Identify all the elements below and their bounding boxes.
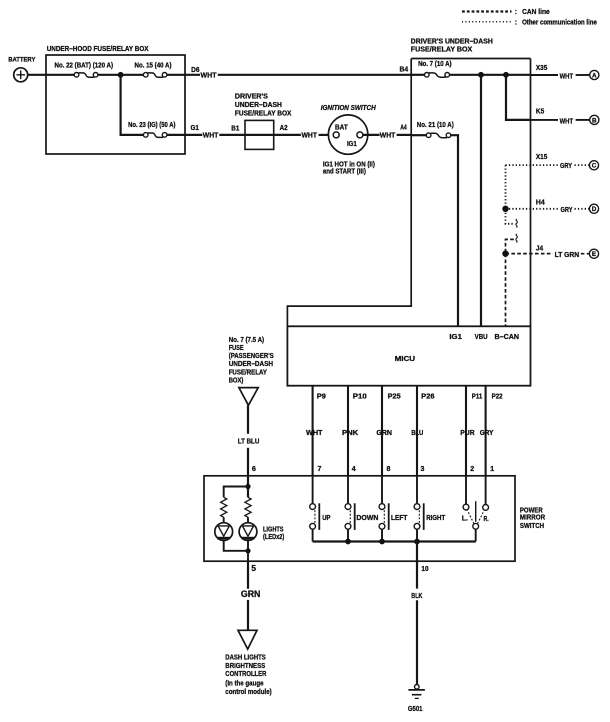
svg-text:PNK: PNK — [342, 430, 358, 437]
svg-text:GRY: GRY — [560, 163, 572, 170]
connector A — [590, 70, 599, 79]
switch L/R selector — [465, 476, 467, 505]
svg-text:BATTERY: BATTERY — [8, 56, 36, 63]
wire MICU pin P25 to switch pin 8 (GRN) — [381, 386, 383, 476]
svg-text:VBU: VBU — [475, 334, 488, 341]
svg-text:A4: A4 — [400, 125, 407, 132]
connector C — [589, 161, 598, 170]
legend: other communication line sample — [462, 21, 512, 23]
svg-text:WHT: WHT — [203, 133, 219, 140]
driver's under-dash fuse/relay box (B1/A2) — [245, 120, 274, 149]
wire UP to ground bus — [312, 529, 314, 541]
svg-text:R.: R. — [484, 516, 489, 523]
connector B — [590, 115, 599, 124]
fuse symbol (triangle) — [239, 388, 258, 406]
svg-text:A2: A2 — [280, 125, 288, 132]
svg-text::: : — [515, 19, 517, 26]
wire battery to under-hood box — [28, 74, 74, 76]
wire MICU pin P26 to switch pin 3 (BLU) — [416, 386, 418, 476]
svg-text:LEFT: LEFT — [391, 515, 408, 522]
driver's under-dash fuse/relay box outline — [287, 59, 530, 327]
svg-text:GRN: GRN — [241, 589, 261, 599]
wire to D6 exit — [167, 74, 200, 76]
svg-text:BRIGHTNESS: BRIGHTNESS — [225, 663, 265, 670]
squiggle continuation (dotted) — [516, 219, 518, 228]
wire IG1 to A4 — [363, 134, 380, 136]
wire K5 branch — [506, 75, 531, 120]
junction VBU branch — [478, 72, 484, 78]
svg-text:LT GRN: LT GRN — [555, 252, 580, 259]
svg-text:B1: B1 — [231, 125, 239, 132]
svg-text:3: 3 — [421, 466, 425, 473]
svg-text:LIGHTS: LIGHTS — [263, 526, 284, 533]
wire LEFT to ground bus — [381, 529, 383, 541]
junction main rail — [118, 72, 124, 78]
svg-text:K5: K5 — [536, 109, 544, 116]
terminal BAT — [333, 132, 339, 138]
svg-text:B–CAN: B–CAN — [495, 334, 520, 341]
svg-text:UNDER–DASH: UNDER–DASH — [229, 361, 273, 368]
squiggle continuation (CAN) — [516, 234, 518, 243]
svg-text:No. 21 (10 A): No. 21 (10 A) — [417, 122, 454, 129]
wire MICU pin P11 to switch pin 2 (PUR) — [465, 386, 467, 476]
wire X15 dotted — [506, 164, 559, 166]
wire A2 to ignition switch — [274, 134, 301, 136]
svg-text:DRIVER'S: DRIVER'S — [235, 94, 268, 101]
svg-text:D6: D6 — [191, 67, 199, 74]
connector D — [589, 204, 598, 213]
svg-text:IGNITION SWITCH: IGNITION SWITCH — [321, 105, 377, 112]
svg-text:P25: P25 — [388, 393, 401, 400]
switch DOWN — [347, 476, 349, 504]
wire CAN dashed stub — [506, 239, 514, 253]
junction K5 branch — [503, 72, 509, 78]
svg-text:B4: B4 — [400, 67, 409, 74]
svg-text:P10: P10 — [353, 393, 367, 400]
svg-text:CONTROLLER: CONTROLLER — [225, 671, 266, 678]
svg-text:No. 7 (7.5 A): No. 7 (7.5 A) — [229, 337, 264, 344]
wire fuse No.22 to junction to fuse No.15 — [98, 74, 143, 76]
svg-text:C: C — [592, 163, 597, 170]
ground G501 — [415, 685, 420, 690]
svg-text:(In the gauge: (In the gauge — [225, 681, 263, 688]
wire K5 to connector B — [531, 119, 559, 121]
svg-text:No. 7 (10 A): No. 7 (10 A) — [418, 61, 452, 68]
wire junction down to fuse No.23 — [121, 75, 144, 135]
svg-text:BAT: BAT — [335, 125, 348, 132]
svg-text:No. 15 (40 A): No. 15 (40 A) — [135, 63, 172, 70]
svg-text:DOWN: DOWN — [356, 515, 378, 522]
wire J4 dashed to connector E — [506, 253, 553, 255]
svg-text:FUSE/RELAY: FUSE/RELAY — [229, 369, 268, 376]
wire L/R common to bus — [475, 529, 477, 541]
svg-text:control module): control module) — [225, 689, 271, 696]
svg-text:UNDER–DASH: UNDER–DASH — [235, 102, 282, 109]
wire bus to pin 10 — [416, 542, 418, 562]
dash lights brightness controller (triangle) — [238, 630, 257, 649]
svg-text:J4: J4 — [536, 245, 543, 252]
ground bus in switch — [313, 540, 476, 542]
wire IG1 pin — [451, 135, 458, 326]
svg-text:L.: L. — [462, 516, 468, 523]
svg-text:BLU: BLU — [411, 430, 423, 437]
wire LEDs to pin 5 — [224, 541, 248, 551]
wire MICU pin P22 to switch pin 1 (GRY) — [485, 386, 487, 476]
svg-text:GRN: GRN — [376, 430, 392, 437]
svg-text:Other communication line: Other communication line — [522, 19, 597, 26]
junction pin 6 lights — [245, 484, 250, 489]
svg-text:IG1: IG1 — [449, 334, 462, 341]
under-hood fuse/relay box — [46, 55, 185, 154]
wire B-CAN dashed — [505, 254, 507, 327]
svg-text:6: 6 — [252, 464, 256, 473]
wire WHT to B4 — [218, 74, 411, 76]
svg-text:4: 4 — [352, 466, 356, 473]
svg-text:(LEDx2): (LEDx2) — [263, 534, 284, 541]
svg-text:UNDER–HOOD FUSE/RELAY BOX: UNDER–HOOD FUSE/RELAY BOX — [47, 46, 149, 53]
svg-text:UP: UP — [322, 515, 330, 522]
switch RIGHT — [416, 476, 418, 504]
svg-text:GRY: GRY — [561, 207, 573, 214]
svg-text:WHT: WHT — [201, 72, 218, 79]
wire LT BLU to pin 6 — [247, 405, 249, 434]
wire RIGHT to ground bus — [416, 529, 418, 541]
svg-text:5: 5 — [251, 563, 256, 573]
svg-text:X35: X35 — [536, 65, 547, 72]
svg-text:P26: P26 — [421, 393, 435, 400]
svg-text:WHT: WHT — [306, 430, 323, 437]
LED1 — [215, 523, 233, 541]
svg-text:10: 10 — [421, 566, 428, 573]
power mirror switch S — [204, 476, 515, 561]
svg-text:LT BLU: LT BLU — [238, 439, 259, 446]
wire pin 10 BLK — [416, 561, 418, 588]
svg-text:IG1 HOT in ON (II): IG1 HOT in ON (II) — [323, 161, 375, 168]
svg-text:G501: G501 — [408, 706, 423, 713]
svg-text:No. 23 (IG) (50 A): No. 23 (IG) (50 A) — [128, 122, 175, 129]
legend: CAN line sample — [462, 10, 512, 12]
wire VBU — [480, 75, 482, 326]
wire R1 to LED1 — [223, 517, 225, 523]
svg-text:2: 2 — [470, 466, 474, 473]
svg-text:1: 1 — [490, 466, 494, 473]
svg-text:DASH LIGHTS: DASH LIGHTS — [225, 655, 266, 662]
svg-text:IG1: IG1 — [347, 141, 357, 148]
svg-text:E: E — [592, 251, 596, 258]
junction J4 — [502, 250, 508, 256]
junction lights to pin 5 — [245, 548, 250, 553]
wire pin 5 GRN — [247, 561, 249, 589]
svg-text:B: B — [592, 117, 597, 124]
terminal IG1 — [357, 132, 363, 138]
svg-text:GRY: GRY — [480, 430, 494, 437]
junction bus DOWN — [345, 539, 351, 545]
wire MICU pin P10 to switch pin 4 (PNK) — [347, 386, 349, 476]
svg-text:(PASSENGER'S: (PASSENGER'S — [229, 353, 274, 360]
svg-text:BOX): BOX) — [229, 377, 244, 384]
svg-text:8: 8 — [387, 466, 391, 473]
resistor R2 (right) — [245, 497, 251, 517]
svg-text:and START (III): and START (III) — [323, 169, 366, 176]
svg-text:X15: X15 — [536, 154, 547, 161]
svg-text:SWITCH: SWITCH — [520, 523, 544, 530]
wire DOWN to ground bus — [347, 529, 349, 541]
wire MICU pin P9 to switch pin 7 (WHT) — [312, 386, 314, 476]
svg-text:D: D — [592, 206, 597, 213]
connector E — [589, 249, 598, 258]
svg-text:A: A — [592, 72, 597, 79]
wire to G1 exit — [167, 134, 202, 136]
LED2 — [239, 523, 257, 541]
svg-text:POWER: POWER — [520, 508, 543, 515]
svg-text:RIGHT: RIGHT — [426, 515, 446, 522]
svg-text:FUSE/RELAY BOX: FUSE/RELAY BOX — [411, 47, 473, 54]
MICU U — [287, 326, 530, 385]
resistor R1 (left) — [221, 497, 227, 517]
junction bus LEFT — [379, 539, 385, 545]
svg-text:FUSE/RELAY BOX: FUSE/RELAY BOX — [235, 111, 292, 118]
svg-text:H4: H4 — [536, 200, 545, 207]
svg-text:PUR: PUR — [460, 430, 474, 437]
svg-text:P22: P22 — [492, 393, 503, 400]
svg-text:No. 22 (BAT) (120 A): No. 22 (BAT) (120 A) — [55, 63, 114, 70]
wire WHT to B1 — [219, 134, 245, 136]
svg-text:BLK: BLK — [411, 593, 422, 600]
svg-text:MICU: MICU — [395, 356, 416, 363]
svg-text:WHT: WHT — [560, 118, 574, 125]
wire dotted vertical X15 to H4 — [506, 165, 514, 224]
svg-text::: : — [515, 9, 517, 16]
wire H4 dotted — [506, 208, 559, 210]
wire lights branch — [224, 487, 248, 498]
wire X35 to connector A — [531, 74, 559, 76]
wire fuse No.7 to X35 — [450, 74, 531, 76]
junction bus pin 10 — [414, 539, 420, 545]
svg-text:P11: P11 — [472, 393, 482, 400]
svg-text:WHT: WHT — [302, 133, 318, 140]
svg-text:WHT: WHT — [380, 133, 396, 140]
svg-text:7: 7 — [318, 466, 322, 473]
svg-text:CAN line: CAN line — [522, 9, 550, 16]
junction H4 — [502, 206, 508, 212]
wire through B1/A2 box — [245, 134, 274, 136]
wire R2 to LED2 — [247, 517, 249, 523]
switch LEFT — [381, 476, 383, 504]
svg-text:G1: G1 — [191, 125, 199, 132]
svg-text:DRIVER'S UNDER–DASH: DRIVER'S UNDER–DASH — [411, 38, 493, 45]
svg-text:FUSE: FUSE — [229, 345, 244, 352]
svg-text:P9: P9 — [317, 393, 326, 400]
switch UP — [312, 476, 314, 504]
svg-text:MIRROR: MIRROR — [520, 515, 545, 522]
svg-text:WHT: WHT — [560, 73, 574, 80]
